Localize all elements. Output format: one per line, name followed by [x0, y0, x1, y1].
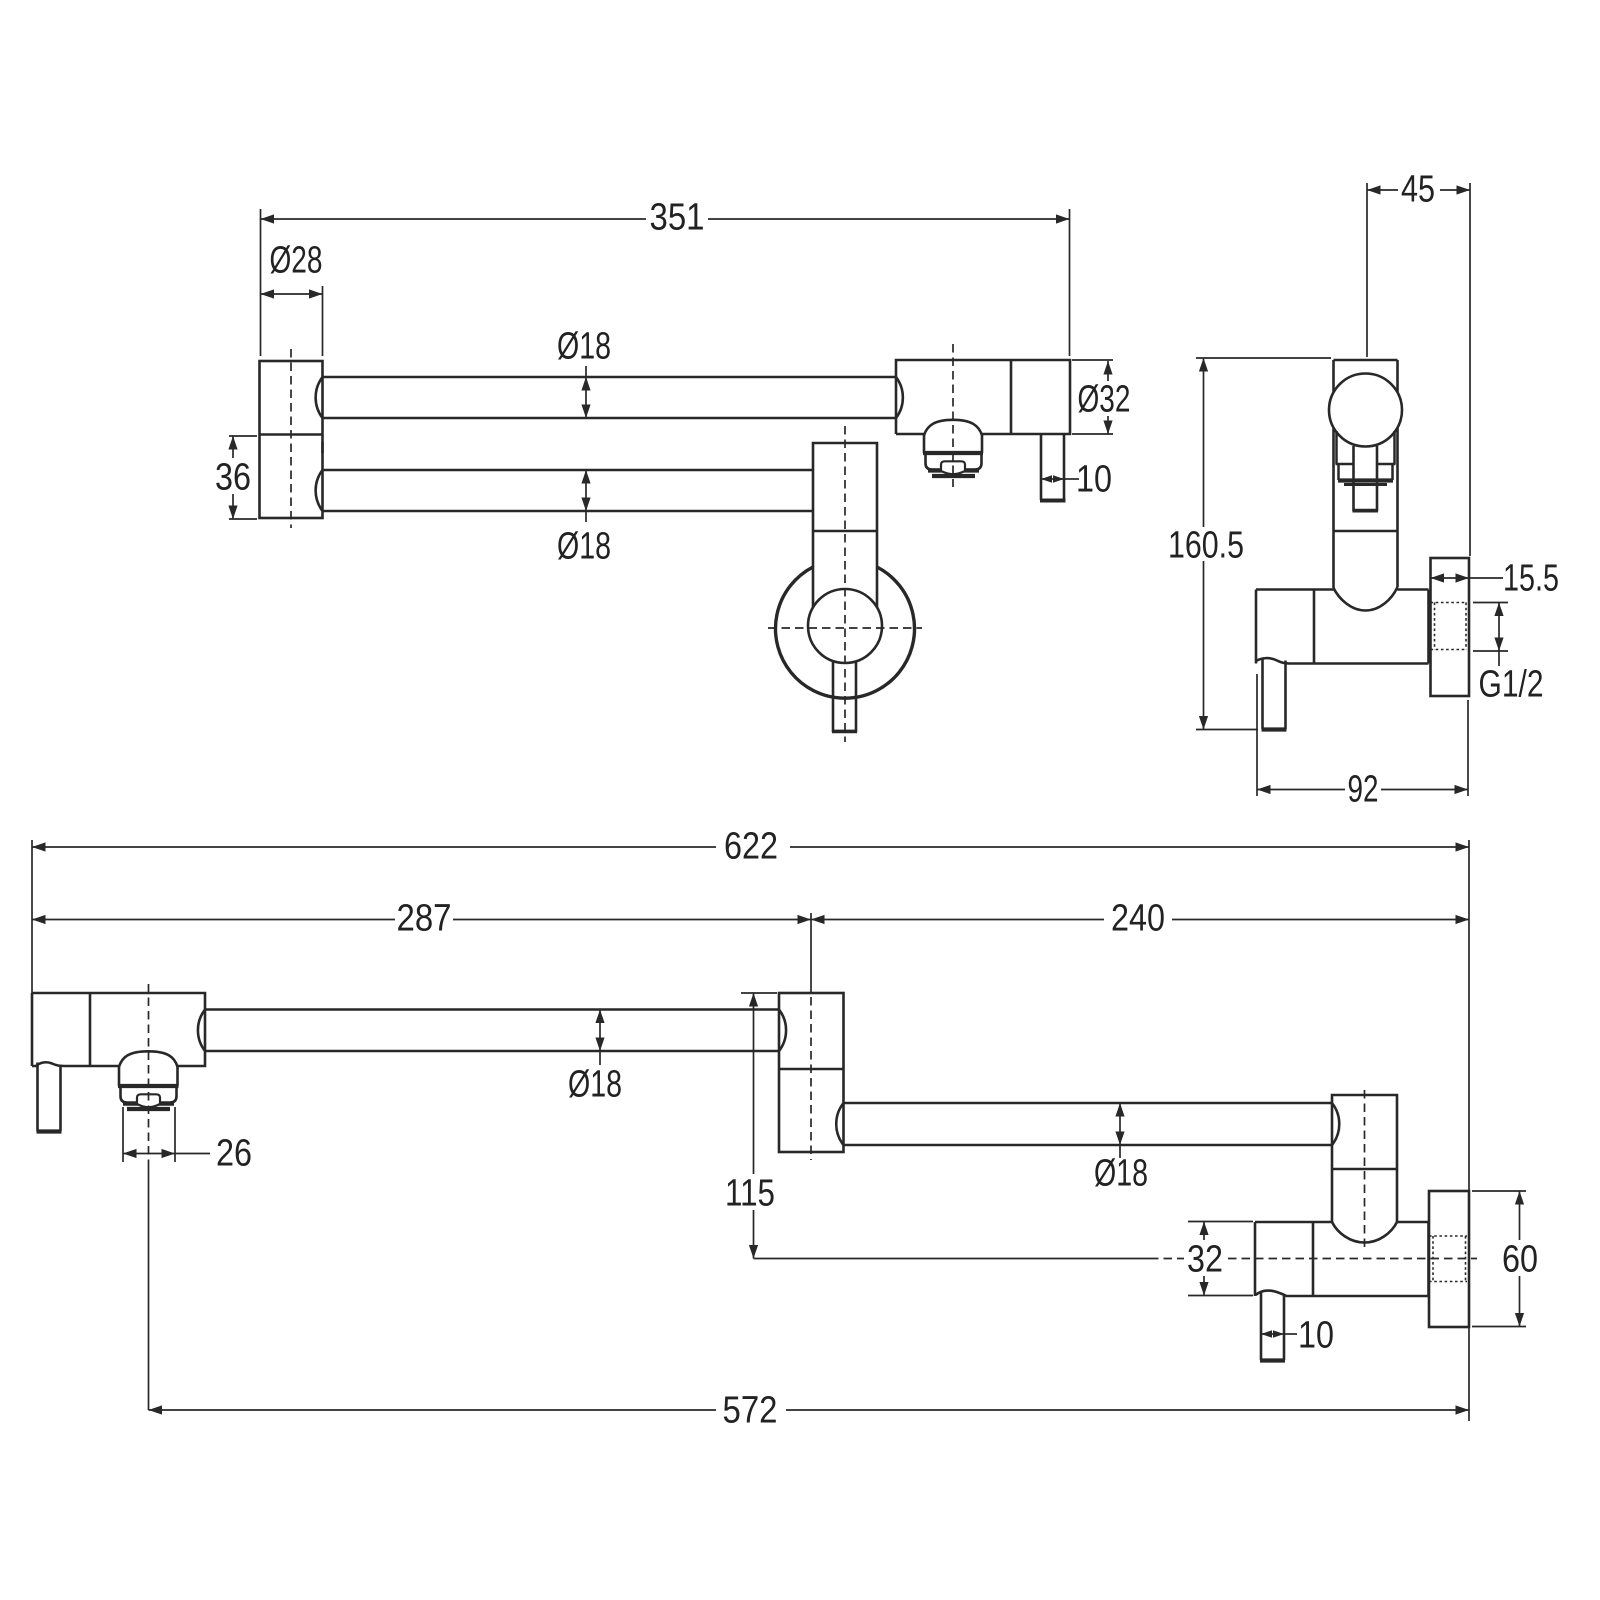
dim 160.5	[1203, 358, 1205, 527]
side view handle lever	[1354, 446, 1378, 510]
svg-text:15.5: 15.5	[1503, 558, 1559, 600]
svg-text:Ø18: Ø18	[568, 1064, 622, 1106]
dim 240	[811, 919, 1104, 921]
spout body bottom edge with inlet notch	[32, 1062, 119, 1066]
side view valve body bottom with inlet notch	[1256, 658, 1429, 663]
dim 115	[753, 993, 755, 1174]
svg-text:240: 240	[1111, 898, 1165, 940]
extended aerator dome	[119, 1051, 178, 1067]
dim 45	[1367, 189, 1398, 191]
wall elbow chamfered tip	[1332, 1222, 1397, 1243]
extended aerator screw tab	[137, 1094, 160, 1107]
wall elbow body (extended view)	[1332, 1095, 1397, 1222]
side view valve body divider	[1313, 590, 1316, 664]
dim 60	[1519, 1191, 1521, 1240]
dim 60 extension lines	[1472, 1190, 1526, 1192]
dim 26 extension lines	[122, 1107, 124, 1162]
aerator dome (plan)	[924, 420, 982, 436]
dim 351 extension line left	[260, 209, 262, 356]
svg-text:Ø28: Ø28	[270, 240, 323, 282]
svg-text:10: 10	[1298, 1315, 1334, 1357]
assembly horizontal centerline	[754, 1258, 1151, 1260]
hidden tube end mark	[321, 442, 324, 453]
wall flange thread dotted square	[1429, 1235, 1467, 1237]
side view body joint line	[1334, 530, 1398, 533]
extended aerator neck	[118, 1066, 121, 1086]
extended aerator face thick line	[123, 1102, 174, 1106]
extended aerator bottom bar thick	[127, 1107, 170, 1111]
dim 10 stem pin	[1041, 478, 1064, 480]
elbow split line	[813, 530, 877, 533]
elbow vertical centerline (dashed)	[844, 426, 846, 742]
dim 160.5 extension top	[1196, 357, 1331, 359]
dim Ø32 extension lines	[1072, 359, 1113, 361]
spout body divider line	[1010, 360, 1013, 434]
dim 115 extension top	[741, 992, 777, 994]
side view inlet pipe	[1261, 660, 1264, 730]
dim 32 extension lines	[1188, 1221, 1253, 1223]
dim Ø18 lower tube	[585, 470, 587, 522]
dim 36 extension lines	[229, 435, 257, 437]
aerator ring	[926, 455, 982, 470]
aerator joint thick line	[923, 451, 983, 455]
wall flange outer circle arc	[776, 567, 915, 698]
side view body chamfered tip	[1334, 587, 1398, 611]
dim 351	[261, 218, 647, 220]
side view valve body right edge	[1427, 590, 1430, 664]
svg-text:287: 287	[397, 898, 452, 940]
dim 572	[149, 1409, 717, 1411]
side view: faucet body sides	[1332, 360, 1335, 392]
svg-text:Ø18: Ø18	[557, 526, 611, 568]
dim 36	[232, 436, 234, 458]
dim 287/240 shared extension line	[810, 913, 812, 993]
dim 26	[123, 1153, 175, 1155]
svg-text:Ø18: Ø18	[1094, 1153, 1148, 1195]
svg-text:572: 572	[723, 1390, 778, 1432]
dim 160.5 extension bottom	[1196, 729, 1258, 731]
side view bonnet shoulder	[1336, 463, 1354, 466]
dim Ø18 extended upper tube	[599, 1010, 601, 1066]
side view body top edge	[1334, 359, 1398, 362]
dim 92	[1257, 789, 1345, 791]
dim 622/287 extension line left	[31, 840, 33, 993]
svg-text:351: 351	[650, 197, 705, 239]
dim G1/2 leader	[1498, 603, 1500, 667]
end cap centerline (dashed)	[290, 349, 292, 528]
extended aerator ring	[121, 1088, 177, 1103]
svg-text:Ø32: Ø32	[1078, 379, 1131, 421]
lower arm tube (plan)	[323, 469, 814, 472]
view: folded faucet plan - left end cap body	[260, 361, 323, 518]
dim Ø28	[261, 293, 323, 295]
dim 10 wall inlet pipe	[1261, 1333, 1284, 1335]
dim 15.5	[1431, 577, 1470, 579]
svg-text:60: 60	[1502, 1239, 1538, 1281]
dim 622	[32, 846, 716, 848]
side view knuckle circle	[1329, 374, 1402, 447]
side view valve body left edge	[1255, 590, 1258, 664]
handle lever (plan)	[833, 661, 856, 731]
side view G1/2 thread dotted lines	[1431, 602, 1468, 604]
upper arm tube (plan)	[323, 376, 897, 379]
wall valve body bottom with inlet notch	[1256, 1291, 1429, 1296]
dim 287	[32, 919, 395, 921]
aerator centerline (dashed)	[952, 344, 954, 487]
aerator neck	[923, 434, 926, 453]
fold joint block	[779, 993, 844, 1152]
svg-text:10: 10	[1076, 459, 1112, 501]
svg-text:115: 115	[725, 1173, 775, 1215]
dim Ø28 extension line right	[322, 286, 324, 356]
wall valve body left edge	[1254, 1222, 1257, 1296]
end cap split line	[260, 433, 323, 436]
extended inlet pipe left	[36, 1063, 39, 1132]
wall valve body top edge	[1255, 1221, 1332, 1224]
pivot elbow block (plan)	[813, 443, 877, 607]
dim 622/240/572 extension line right	[1468, 840, 1470, 1421]
svg-text:G1/2: G1/2	[1479, 664, 1544, 706]
svg-text:26: 26	[216, 1133, 252, 1175]
extended upper arm tube	[205, 1008, 779, 1011]
extended aerator centerline dashed then solid to dim 572	[148, 984, 150, 1168]
spout body divider	[89, 993, 92, 1066]
wall inlet pipe	[1260, 1292, 1263, 1360]
dim 92 extension lines	[1256, 674, 1258, 796]
spout valve body (plan)	[896, 360, 1070, 434]
svg-text:92: 92	[1348, 769, 1379, 811]
valve stem pin (plan)	[1040, 434, 1043, 500]
svg-text:32: 32	[1187, 1239, 1223, 1281]
svg-text:160.5: 160.5	[1168, 525, 1244, 567]
fold joint split line	[779, 1068, 844, 1071]
wall elbow centerline (dashed)	[1364, 1090, 1366, 1250]
wall elbow split line	[1332, 1168, 1397, 1171]
upper tube fillet arc at spout body	[896, 377, 903, 418]
dim G1/2 thread extension lines	[1473, 602, 1508, 604]
dim Ø32	[1107, 361, 1109, 381]
handle base inner circle	[808, 589, 882, 663]
dim 32	[1203, 1222, 1205, 1241]
side view valve body top edge	[1256, 588, 1334, 591]
aerator face thick line	[928, 468, 979, 472]
svg-text:36: 36	[215, 457, 251, 499]
svg-text:45: 45	[1401, 169, 1435, 211]
wall flange plate (extended view)	[1429, 1191, 1469, 1327]
side view wall flange plate	[1431, 558, 1470, 696]
dim 45 extension lines	[1366, 183, 1368, 357]
dim Ø18 extended lower tube	[1119, 1103, 1121, 1158]
svg-text:Ø18: Ø18	[557, 326, 611, 368]
aerator screw tab	[941, 461, 965, 474]
side view cartridge step block	[1337, 464, 1340, 480]
side view bonnet sides	[1335, 431, 1338, 464]
aerator bottom bar thick	[932, 474, 975, 478]
dim 351 extension line right	[1069, 209, 1071, 356]
extended aerator joint thick line	[118, 1084, 179, 1088]
wall valve body right edge	[1427, 1222, 1430, 1296]
svg-text:622: 622	[724, 826, 778, 868]
wall valve body divider	[1312, 1222, 1315, 1296]
extended lower arm tube	[844, 1102, 1333, 1105]
extended view: spout valve body	[32, 993, 205, 1066]
fold joint centerline (dashed)	[810, 997, 812, 1160]
flange horizontal centerline (dashed)	[768, 627, 922, 629]
dim Ø18 upper tube	[585, 366, 587, 418]
